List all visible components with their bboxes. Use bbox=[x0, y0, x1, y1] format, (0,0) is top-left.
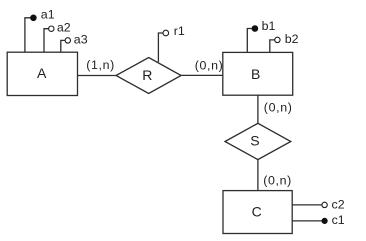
wire A-R bbox=[78, 75, 117, 77]
svg-text:C: C bbox=[252, 204, 262, 220]
label c2 bbox=[332, 197, 345, 211]
attribute b1 wire bbox=[247, 29, 255, 53]
cardinality (0,n) on wire B-S bbox=[264, 100, 293, 114]
svg-text:b2: b2 bbox=[285, 32, 299, 46]
entity C bbox=[223, 191, 292, 234]
wire R-B bbox=[181, 74, 223, 76]
attribute b1 key dot bbox=[252, 26, 258, 32]
label c1 bbox=[332, 213, 345, 227]
label b2 bbox=[285, 32, 299, 46]
svg-text:S: S bbox=[250, 133, 259, 149]
attribute a1 wire bbox=[25, 18, 34, 52]
attribute r1 circle bbox=[163, 30, 169, 36]
cardinality (1,n) on wire A-R bbox=[86, 58, 115, 72]
attribute a1 key dot bbox=[31, 15, 37, 21]
svg-text:(0,n): (0,n) bbox=[263, 173, 292, 187]
relationship R name bbox=[142, 67, 152, 83]
svg-text:a2: a2 bbox=[57, 20, 71, 34]
relationship S bbox=[225, 123, 291, 159]
svg-text:a1: a1 bbox=[41, 8, 55, 22]
label a2 bbox=[57, 20, 71, 34]
entity C name bbox=[252, 204, 262, 220]
svg-text:r1: r1 bbox=[174, 24, 185, 38]
relationship R bbox=[116, 58, 181, 94]
svg-text:R: R bbox=[142, 67, 152, 83]
attribute a3 circle bbox=[65, 38, 70, 43]
entity B name bbox=[251, 66, 260, 82]
attribute a3 wire bbox=[61, 40, 65, 52]
svg-text:B: B bbox=[251, 66, 260, 82]
attribute c1 wire bbox=[292, 220, 322, 222]
attribute a2 wire bbox=[44, 29, 49, 53]
svg-text:(0,n): (0,n) bbox=[264, 100, 293, 114]
svg-text:(1,n): (1,n) bbox=[86, 58, 115, 72]
attribute c1 key dot bbox=[322, 218, 327, 223]
attribute r1 wire bbox=[158, 33, 163, 62]
attribute c2 circle bbox=[322, 202, 327, 207]
cardinality (0,n) on wire S-C bbox=[263, 173, 292, 187]
attribute b2 circle bbox=[275, 37, 280, 42]
entity A bbox=[7, 52, 77, 95]
relationship S name bbox=[250, 133, 259, 149]
svg-text:b1: b1 bbox=[262, 19, 276, 33]
wire S-C bbox=[257, 160, 259, 191]
label a1 bbox=[41, 8, 55, 22]
svg-text:A: A bbox=[37, 65, 47, 81]
label b1 bbox=[262, 19, 276, 33]
svg-text:a3: a3 bbox=[74, 33, 88, 47]
cardinality (0,n) on wire R-B bbox=[195, 59, 224, 73]
label r1 bbox=[174, 24, 185, 38]
attribute b2 wire bbox=[270, 40, 275, 53]
entity A name bbox=[37, 65, 47, 81]
attribute c2 wire bbox=[292, 204, 322, 206]
label a3 bbox=[74, 33, 88, 47]
attribute a2 circle bbox=[49, 26, 54, 31]
svg-text:c2: c2 bbox=[332, 197, 345, 211]
entity B bbox=[223, 52, 293, 95]
svg-text:c1: c1 bbox=[332, 213, 345, 227]
svg-text:(0,n): (0,n) bbox=[195, 59, 224, 73]
wire B-S bbox=[257, 95, 259, 123]
